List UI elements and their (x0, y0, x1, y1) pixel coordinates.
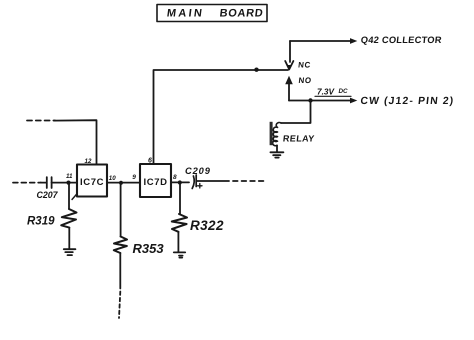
ground under R319 (64, 249, 76, 255)
title box MAIN BOARD (157, 5, 267, 22)
svg-text:C207: C207 (37, 190, 59, 200)
NC contact arrow (285, 41, 311, 69)
node Q42 COLLECTOR (350, 35, 442, 45)
relay coil K1 (270, 122, 316, 152)
svg-text:R319: R319 (27, 216, 55, 228)
resistor R322 (172, 185, 224, 253)
svg-text:Q42 COLLECTOR: Q42 COLLECTOR (360, 35, 442, 45)
node 7.3V DC junction (308, 98, 312, 102)
svg-text:NC: NC (298, 61, 312, 70)
svg-text:10: 10 (109, 175, 116, 182)
capacitor C207 (37, 177, 59, 200)
svg-text:8: 8 (173, 174, 177, 181)
wire (41, 182, 47, 184)
svg-text:CW (J12- PIN 2): CW (J12- PIN 2) (360, 96, 455, 107)
wire (52, 182, 77, 184)
resistor R319 (27, 184, 77, 249)
ground under relay (270, 152, 283, 157)
svg-text:R322: R322 (190, 218, 224, 233)
svg-text:NO: NO (298, 76, 312, 85)
resistor R353 (114, 185, 165, 289)
wire (197, 180, 230, 182)
node junction between ICs (119, 181, 123, 185)
svg-text:DC: DC (339, 88, 349, 95)
wire to relay coil (281, 101, 311, 124)
svg-text:BOARD: BOARD (219, 7, 264, 19)
ground under R322 (174, 252, 185, 257)
svg-text:R353: R353 (133, 241, 165, 256)
svg-text:9: 9 (132, 174, 136, 181)
wire dashed continuation below R353 (119, 292, 120, 319)
NO contact arrow (285, 76, 312, 101)
wire IC7C pin10 to IC7D pin9 (107, 182, 140, 184)
capacitor C209 (polarized) (185, 166, 211, 189)
svg-text:12: 12 (85, 158, 92, 165)
IC U7D (IC7D) (140, 164, 171, 197)
svg-text:C209: C209 (185, 166, 211, 176)
wire (54, 120, 97, 164)
wire IC7D pin8 to C209 (171, 181, 189, 183)
net label 7.3V DC (315, 86, 351, 96)
wire NO to CW output (289, 100, 351, 102)
wire IC7D pin6 up and right to NC contact (154, 70, 289, 164)
svg-text:6: 6 (148, 158, 152, 165)
svg-text:11: 11 (66, 173, 73, 180)
svg-text:IC7C: IC7C (80, 177, 104, 188)
svg-text:RELAY: RELAY (282, 133, 315, 143)
node junction on NC feed (254, 68, 258, 72)
node CW (J12 - PIN 2) (350, 96, 455, 107)
wire main input dashed (13, 182, 41, 184)
node pin 8 junction (178, 180, 182, 184)
svg-text:MAIN: MAIN (166, 7, 205, 19)
wire dashed continuation right (233, 180, 265, 182)
wire Q42 collector line (290, 40, 351, 42)
svg-text:7.3V: 7.3V (317, 86, 336, 96)
wire top-left dashed feed to IC7C pin 12 (27, 120, 55, 122)
svg-text:IC7D: IC7D (144, 177, 168, 188)
node pin 11 junction (66, 173, 73, 185)
IC U7C (IC7C) (72, 165, 107, 200)
